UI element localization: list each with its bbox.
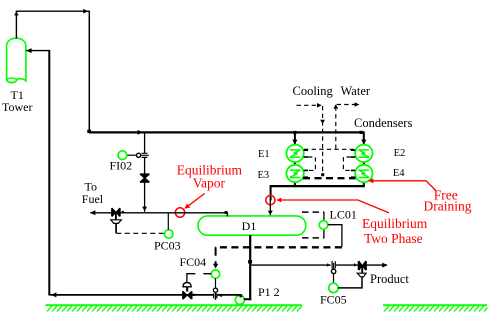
- CW stub E3 upper: [304, 169, 308, 171]
- svg-text:Draining: Draining: [424, 198, 472, 213]
- CW stub E3 lower: [304, 176, 308, 178]
- controller FI02: [118, 151, 127, 160]
- wire FC04 sensor drop: [215, 278, 217, 288]
- drum D1: [198, 216, 306, 235]
- control dashed drop to FC04: [215, 247, 217, 264]
- junction dot E2 branch: [360, 131, 363, 134]
- svg-text:Tower: Tower: [2, 100, 32, 114]
- CW outlet up arrow: [333, 104, 338, 108]
- svg-text:D1: D1: [242, 219, 257, 233]
- wire tower overhead riser: [15, 11, 17, 38]
- flow nub before product valve: [354, 263, 357, 267]
- wire LC01 lower: [323, 229, 325, 238]
- CW top header dashed: [304, 148, 355, 150]
- junction dot: [87, 130, 91, 133]
- arrow right on overhead: [83, 9, 88, 14]
- wire overhead horizontal: [16, 10, 90, 12]
- nub right of FC04 valve: [193, 294, 195, 296]
- red arrow free draining: [368, 178, 374, 183]
- svg-text:P1 2: P1 2: [258, 285, 280, 299]
- condenser E4: [355, 165, 372, 182]
- wire actuator stem: [115, 224, 117, 234]
- valve product bowtie: [359, 262, 365, 270]
- wire E3 to header: [294, 182, 296, 187]
- junction dot product: [248, 260, 252, 263]
- pipe header corner drop: [270, 186, 272, 201]
- wire to FC05: [333, 274, 335, 284]
- arrow down to E2: [361, 140, 366, 145]
- pipe recycle: [50, 294, 241, 296]
- pipe recycle riser: [48, 51, 50, 296]
- CW inlet vertical dashed: [322, 106, 324, 175]
- flow element plates FI02: [142, 153, 148, 157]
- tower T1: [7, 38, 26, 82]
- valve FC04 actuator dome: [183, 283, 191, 287]
- arrow to fuel: [90, 210, 95, 215]
- svg-text:E4: E4: [393, 168, 405, 179]
- wire E4 to header: [363, 182, 365, 187]
- arrow recycle left: [51, 292, 56, 297]
- svg-text:E1: E1: [258, 149, 270, 160]
- valve fuel stem: [115, 213, 117, 220]
- svg-text:Equilibrium: Equilibrium: [362, 216, 428, 231]
- valve product stem: [361, 266, 363, 274]
- junction dot at pump: [240, 294, 243, 297]
- pipe product: [250, 264, 330, 266]
- svg-text:Product: Product: [370, 272, 409, 286]
- wire valve down: [144, 182, 146, 211]
- arrow into drum: [268, 211, 273, 215]
- node equilibrium free-water circle: [266, 196, 275, 205]
- pipe overhead to condensers: [89, 131, 365, 133]
- controller PC03: [165, 230, 173, 238]
- svg-text:Cooling: Cooling: [293, 84, 334, 98]
- arrow flow left FC04: [218, 294, 222, 298]
- controller FC05: [329, 283, 338, 292]
- CW outlet vertical dashed: [335, 106, 337, 149]
- CW inlet horizontal dashed: [297, 104, 321, 106]
- svg-text:FI02: FI02: [110, 159, 133, 173]
- condenser E3: [286, 165, 303, 182]
- ground hatch right: [383, 305, 488, 311]
- wire condensate into drum: [269, 200, 271, 216]
- wire pump stub: [244, 298, 251, 300]
- CW stub E1 lower: [304, 156, 308, 158]
- valve product actuator funnel: [357, 273, 366, 277]
- flow element plates FC05: [332, 261, 335, 269]
- control dashed LC01 to FC04: [215, 246, 342, 248]
- wire PC03 tap: [167, 213, 169, 230]
- fuel line: [90, 212, 227, 214]
- valve hand serif top: [140, 173, 149, 175]
- tower bottom bump: [7, 78, 17, 82]
- arrow product out: [382, 263, 387, 268]
- CW right loop dashed: [343, 157, 351, 170]
- valve FC04 end bars: [183, 291, 192, 299]
- svg-text:Water: Water: [341, 84, 371, 98]
- valve product end bars: [359, 261, 366, 270]
- LC01 dashed top: [302, 211, 324, 213]
- red line equilibrium two phase: [281, 200, 389, 213]
- nub right of fuel valve: [122, 211, 124, 213]
- wire LC01 output: [328, 225, 342, 247]
- junction dot vapor: [225, 211, 228, 214]
- junction dot E1 branch: [293, 131, 296, 134]
- node equilibrium vapor circle: [175, 208, 184, 217]
- flow element plates FC04: [214, 293, 217, 298]
- valve fuel control bowtie: [113, 209, 120, 217]
- wire drop to E2: [363, 132, 365, 144]
- valve FC04 neck: [186, 287, 188, 292]
- flow arrow on pipe: [138, 130, 143, 135]
- red arrow into circle right: [276, 198, 281, 203]
- controller FC04: [211, 270, 219, 278]
- svg-text:Fuel: Fuel: [82, 192, 104, 206]
- svg-text:Condensers: Condensers: [354, 116, 412, 130]
- CW bottom header thick dashed: [303, 177, 356, 179]
- wire into tower: [26, 50, 50, 52]
- svg-text:LC01: LC01: [330, 207, 357, 221]
- valve fuel actuator funnel: [111, 220, 122, 224]
- arrow into FC04: [213, 264, 218, 269]
- control dashed PC03 to valve: [116, 232, 164, 234]
- condenser E2: [355, 145, 372, 162]
- arrow into tower: [26, 48, 31, 53]
- valve FC04 bowtie: [184, 292, 191, 299]
- flow element stem FC04: [215, 292, 217, 300]
- flow element stem FC05: [333, 263, 335, 269]
- svg-text:FC05: FC05: [320, 293, 347, 307]
- wire vapor elbow into drum: [226, 212, 228, 216]
- flow element stem FI02: [141, 154, 149, 156]
- svg-text:E2: E2: [394, 148, 406, 159]
- wire FI02 to sensor: [127, 154, 137, 156]
- CW stub E2 upper: [351, 149, 355, 151]
- valve hand hourglass: [141, 175, 148, 181]
- CW inlet down arrow: [320, 120, 325, 124]
- wire FC04 to valve: [187, 273, 211, 275]
- svg-text:FC04: FC04: [180, 255, 207, 269]
- ground hatch left: [46, 305, 303, 311]
- pipe product out: [367, 264, 387, 266]
- CW outlet right arrow: [355, 102, 360, 107]
- arrow down to E1: [292, 140, 297, 145]
- controller LC01: [319, 221, 328, 230]
- condenser E1: [286, 145, 303, 162]
- flow element circle FC04: [213, 288, 217, 292]
- svg-text:Two Phase: Two Phase: [364, 231, 423, 246]
- CW outlet horizontal dashed: [337, 104, 357, 106]
- CW inlet end dot: [321, 173, 324, 176]
- wire FC05 to product valve: [338, 277, 362, 288]
- wire FI02 branch lower: [144, 158, 146, 174]
- wire drop to E1: [294, 132, 296, 144]
- wire E1-E3 link: [294, 162, 296, 165]
- svg-text:Vapor: Vapor: [193, 176, 226, 191]
- arrow up at riser top: [14, 12, 19, 16]
- red pointer equilibrium vapor: [186, 194, 204, 208]
- CW left loop dashed: [308, 157, 315, 170]
- LC01 dashed bottom: [302, 237, 324, 239]
- CW stub E2 lower: [351, 156, 355, 158]
- wire overhead drop: [88, 11, 90, 132]
- svg-text:E3: E3: [258, 170, 270, 181]
- CW stub E4 upper: [351, 169, 355, 171]
- svg-text:PC03: PC03: [154, 238, 181, 252]
- CW stub E4 lower: [351, 176, 355, 178]
- wire FI02 branch upper: [144, 133, 146, 153]
- flow element circle FC05: [331, 269, 335, 273]
- pump P1/P2: [235, 295, 244, 304]
- red line free draining: [373, 181, 436, 191]
- CW inlet right arrow: [317, 103, 322, 108]
- valve hand serif bottom: [140, 181, 149, 183]
- arrow product flow: [327, 263, 330, 267]
- wire E2-E4 link: [363, 162, 365, 165]
- valve fuel control end bars: [112, 208, 120, 216]
- red arrowhead equilibrium vapor: [184, 204, 190, 209]
- pipe drum outlet: [249, 235, 251, 300]
- CW stub E1 upper: [304, 149, 308, 151]
- pipe condensate header: [270, 185, 365, 187]
- flow element circle FI02: [137, 153, 141, 157]
- wire LC01 upper: [323, 212, 325, 221]
- arrow down to fuel line: [142, 207, 147, 211]
- pipe product mid: [336, 264, 358, 266]
